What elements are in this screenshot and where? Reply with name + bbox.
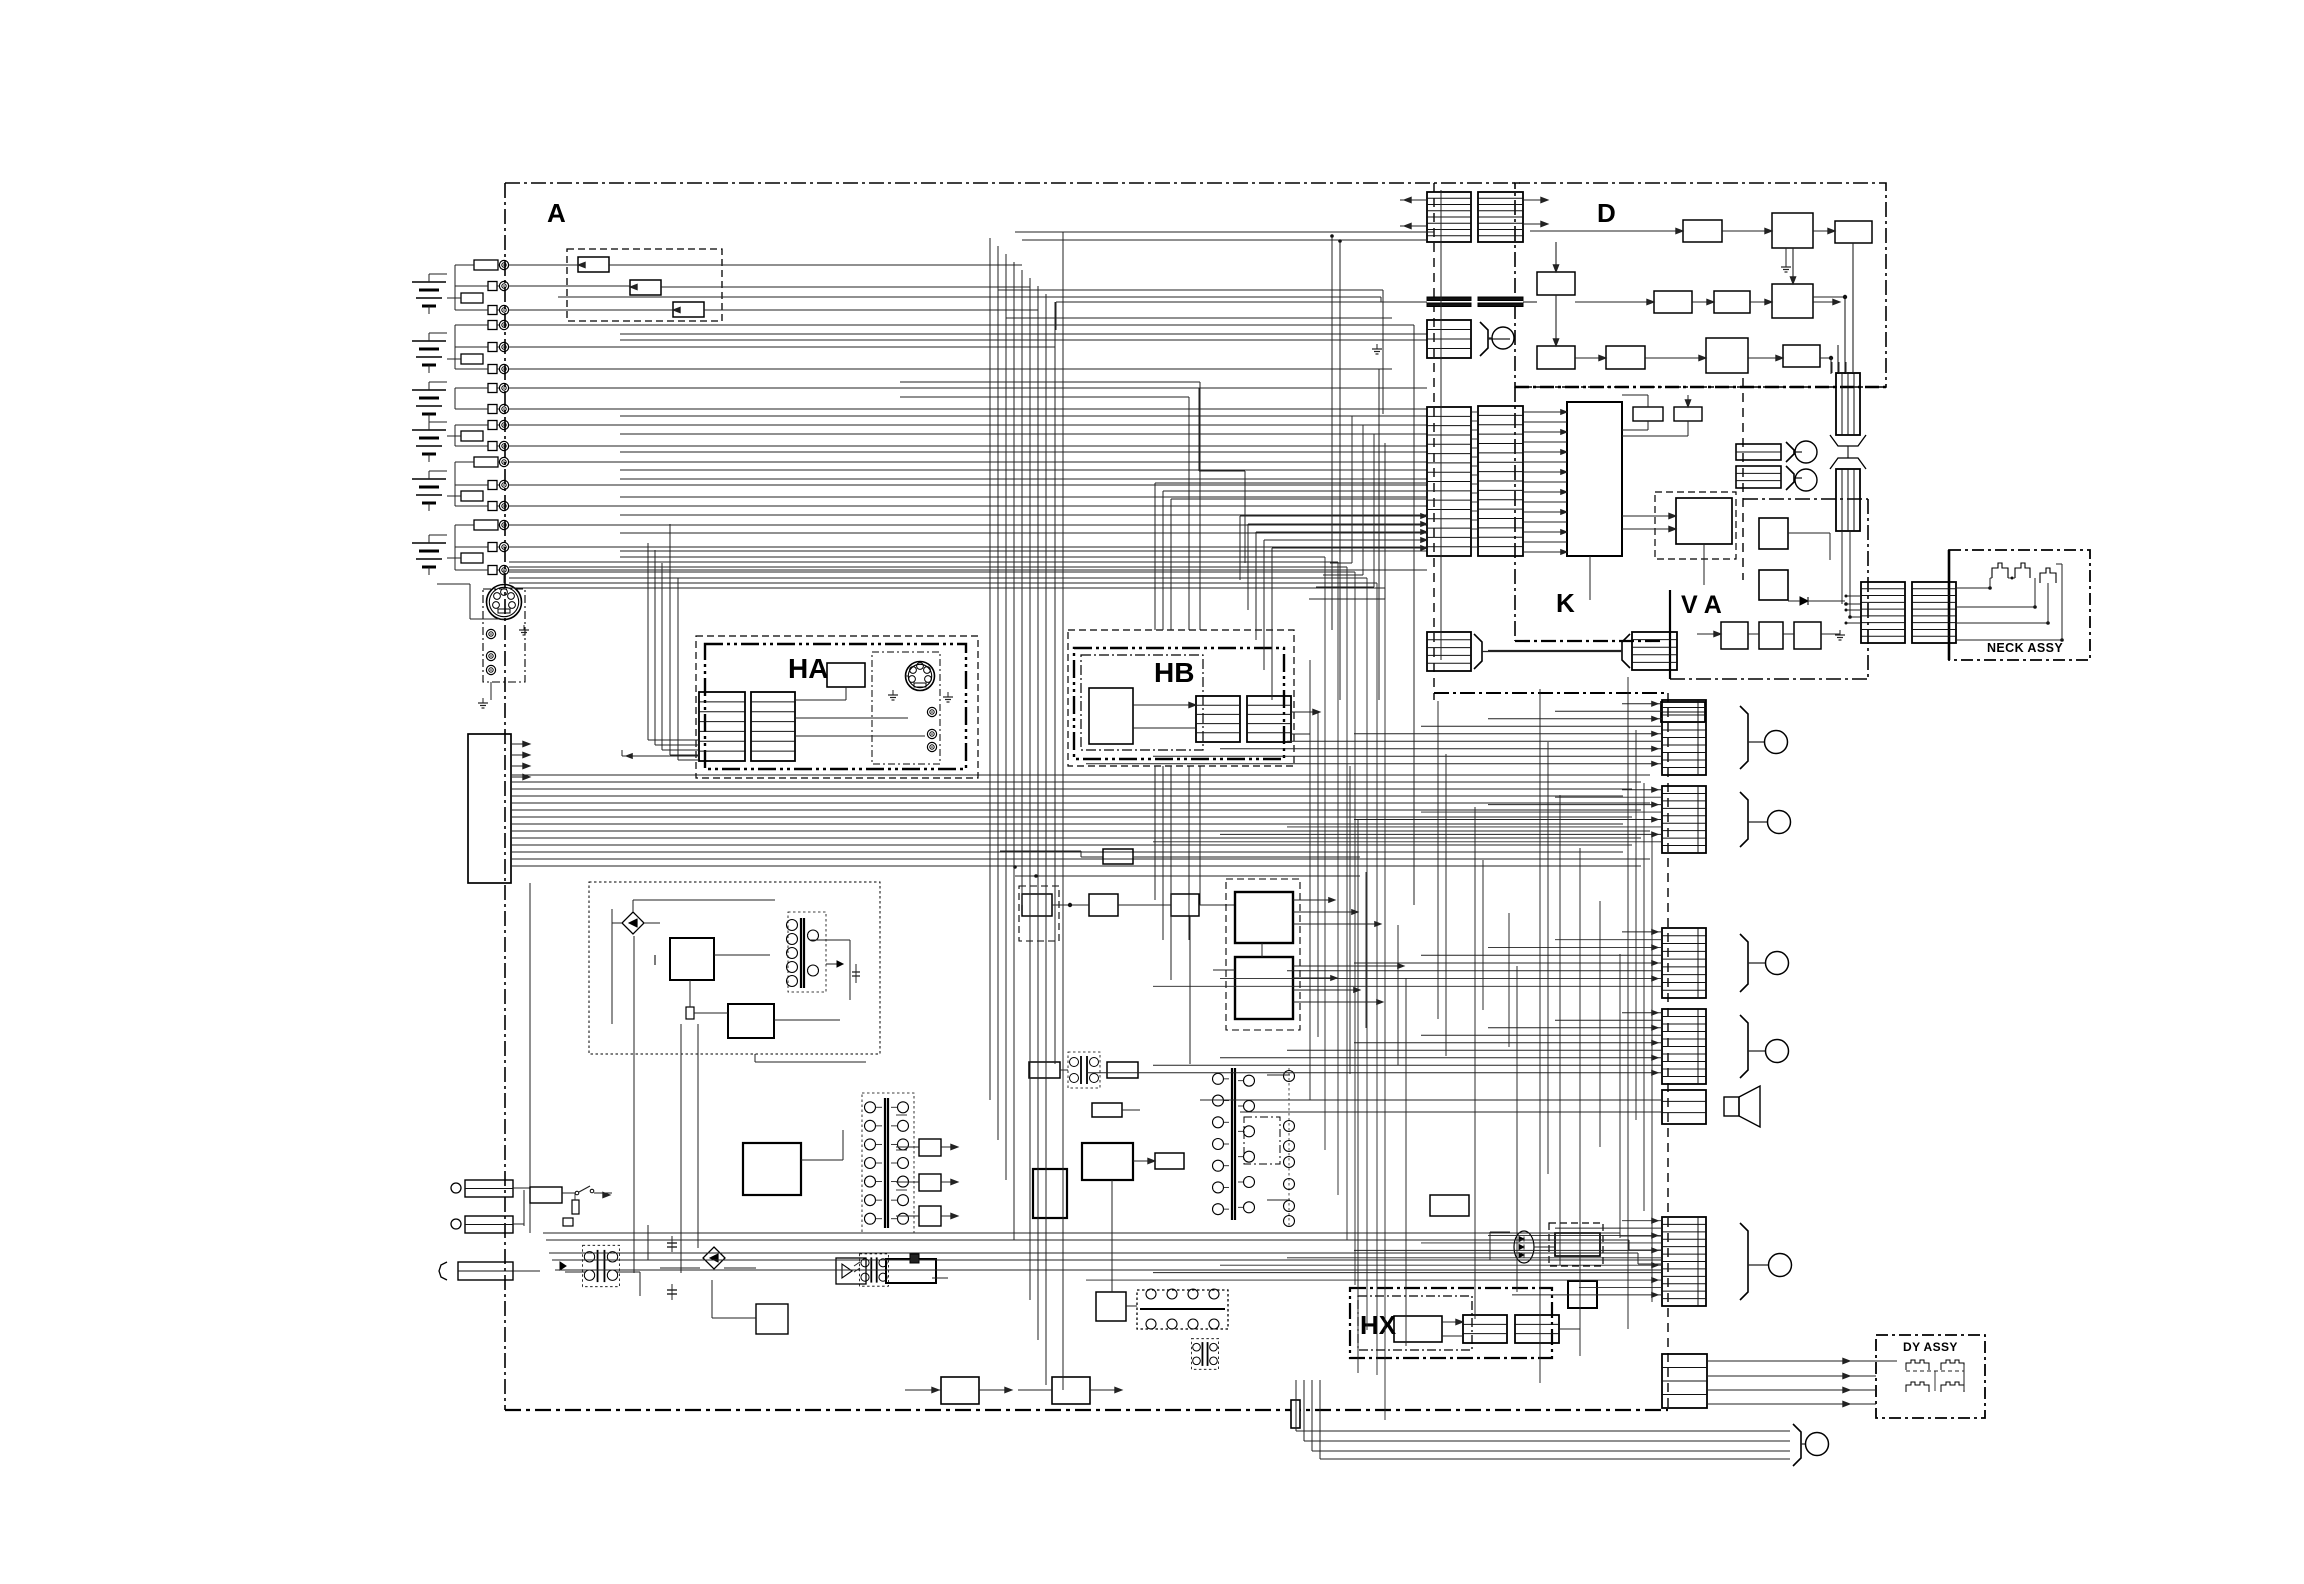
board edge terminal [499,542,508,551]
series block on bus [1000,850,1081,852]
A left edge lower vertical wire [529,883,531,1233]
power supply primary dotted box [589,882,880,1054]
AFC transformer [1080,1056,1082,1084]
connector pin [488,321,497,330]
neck coil 3 [2040,568,2056,583]
h-osc block [1092,1103,1122,1117]
VA driver block [1676,498,1732,544]
main bridge [647,1225,649,1260]
speaker symbol [1724,1097,1739,1116]
DIN jack S-video [487,585,522,620]
D block b1 [1683,220,1722,242]
terminal signal wires running right [509,324,1414,326]
AFC block R [1107,1062,1138,1078]
svg-text:HX: HX [1360,1310,1397,1340]
spot killer block 2 [1052,1377,1090,1404]
svg-text:HB: HB [1154,657,1194,688]
ferrite bar1 [1427,297,1471,301]
sync sep block [1022,894,1052,916]
pin group link wires [454,265,456,310]
HA connector 2 [751,692,795,761]
D block b6 [1714,291,1750,313]
AC line to transformer [513,1270,540,1272]
board edge terminal [499,364,508,373]
board edge terminal [499,342,508,351]
HB tuner sub dash box [1081,655,1203,750]
connector pin [488,343,497,352]
delay-line sub-board dashed box [567,249,722,321]
board edge terminal [499,480,508,489]
D block b11 [1783,345,1820,367]
connector AV1 [1736,444,1781,460]
board edge terminal [499,260,508,269]
remote sensor dashed box [1549,1223,1603,1266]
lower long bus wires [543,1232,1620,1234]
HB tuner block [1089,688,1133,744]
jungle IC block2 [1235,957,1293,1019]
connector pin [488,365,497,374]
HA assembly outer dashed box [696,636,978,778]
D block b4 [1537,272,1575,295]
connector pin [488,306,497,315]
AC power plug [439,1262,447,1280]
HA jack terminals [927,707,936,716]
DY ASSY boundary [1876,1335,1985,1418]
board edge terminal [499,457,508,466]
HA DIN jack [906,662,935,691]
connector K1 (tall) [1427,407,1471,556]
chain block 1 [1089,894,1118,916]
PSU control IC [670,938,714,980]
neck wires [1956,587,1990,589]
board K boundary [1514,387,1516,641]
v-out block bold [1033,1169,1067,1218]
D block b8 [1537,346,1575,369]
connector CN-D3 with earphone jack [1427,320,1471,358]
board edge terminal [499,501,508,510]
DY connector [1662,1354,1707,1408]
speaker connector [1662,1090,1706,1124]
secondary rectifier rects [919,1139,941,1156]
staircase bundle to HB verticals [620,556,1325,558]
board D boundary [1515,183,1886,387]
connector AV2 [1736,466,1781,488]
svg-text:K: K [1556,588,1575,618]
board A boundary (dash-dot outline) [505,182,1520,184]
D wires row2 [1575,301,1654,303]
staircase corners above K [1351,416,1353,563]
HX wires [1442,1321,1463,1323]
resistor [474,260,498,270]
block filter1 [578,257,609,272]
earphone circle [1492,327,1514,349]
K bottom routing [1589,556,1591,600]
svg-text:V A: V A [1681,591,1722,619]
connector CN-D2 [1478,192,1523,242]
RCA jack pair 2 [451,1219,461,1229]
junction resistor blocks [461,293,483,303]
HA left entry arrows [622,755,699,757]
main regulator block [743,1143,801,1195]
D block b3 [1835,221,1872,243]
fuse on boundary [1291,1400,1300,1428]
D risers to VD1 [1831,362,1833,373]
input filter block [530,1187,562,1203]
h-drive block bold [1082,1143,1133,1180]
A-side connector for VA [1427,632,1471,671]
extra bus wires into connector K1 [620,415,1427,417]
main switching transformer [862,1093,914,1233]
svg-text:HA: HA [788,653,828,684]
HB wires [1133,704,1196,706]
chain block 2 [1171,894,1199,916]
degauss jack [1801,1443,1806,1445]
connector pin [488,421,497,430]
jack terminal [486,629,495,638]
board edge terminal [499,305,508,314]
CRT/AV connector [1662,700,1706,775]
DY coils [1906,1360,1929,1370]
VA brace to A [1622,634,1630,668]
mid horizontal feeders [509,286,990,288]
chain wires [1052,904,1089,906]
AV jack circles [1786,442,1794,462]
power switch [562,1192,575,1194]
RCA jack pair 1 [451,1183,461,1193]
K IC main (microcontroller) [1567,402,1622,556]
right mesh horizontals to CRT connectors [1622,703,1662,705]
fuse on opto wire [910,1254,919,1263]
block filter3 [673,302,704,317]
HB connector 1 [1196,696,1240,742]
vertical bus bundle center-left [989,238,991,1100]
svg-text:D: D [1597,198,1616,228]
brace and jack [1740,934,1748,992]
staircase jogs center [1176,387,1199,389]
PSU switching transformer [788,912,826,992]
battery / electrolytic symbols [412,281,446,283]
staircase wires into HA connector [647,543,649,740]
CRT/AV connector [1662,928,1706,998]
wires to filter blocks [509,264,578,266]
VA amp blocks row [1721,622,1748,649]
HA inner shield dash-dot box [705,644,966,769]
K block r1 [1633,407,1663,421]
h-out block [1155,1153,1184,1169]
K wires top [1647,395,1649,407]
top feeder risers right [1331,236,1333,630]
bundle entering K lower [1240,515,1427,517]
HB inner shield dash-dot box [1074,648,1284,759]
jack wires [513,1187,530,1189]
extra bus line [1015,875,1360,877]
flyback drive vertical [1111,1180,1113,1292]
bottom risers to degauss bundle [1295,1380,1297,1431]
board A main connector CN (tall) [468,734,511,883]
HA IF block [827,663,865,687]
right mesh verticals [1309,660,1311,1100]
board edge terminal [499,320,508,329]
resistor [474,520,498,530]
D block b9 [1606,346,1645,369]
board VA boundary [1669,590,1671,679]
line filter transformer [597,1250,599,1282]
H-size transformer block [1137,1290,1228,1329]
connector pin [488,442,497,451]
D wires col [1555,242,1557,272]
connector CN-D1 [1427,192,1471,242]
board edge terminal [499,281,508,290]
NECK ASSY boundary [1949,550,2090,660]
VA bottom connector [1661,702,1705,722]
CN-D arrows [1400,199,1427,201]
D wires row3 [1575,357,1606,359]
spot killer block 1 [941,1377,979,1404]
FBT diode stack wires [1267,1074,1290,1076]
brace and jack [1740,1015,1748,1078]
connector pin [488,384,497,393]
HA wires [845,687,847,700]
FBT left transformer [1231,1068,1233,1220]
jungle IC dashed box [1226,879,1300,1030]
connector pin [488,481,497,490]
vertical risers from top band [1413,325,1415,905]
top feeder wires [990,237,1063,239]
board edge terminal [499,383,508,392]
K wires left fan [1523,411,1567,413]
FBT diode column [1288,1068,1290,1228]
jack terminal [486,665,495,674]
pincushion transformer [1201,1342,1203,1366]
D wires row1 [1530,230,1683,232]
HX connector 1 [1463,1315,1507,1343]
svg-text:DY ASSY: DY ASSY [1903,1340,1958,1354]
connector K2 (tall) [1478,406,1523,556]
board edge terminal [499,520,508,529]
jack terminal [486,651,495,660]
neck input stubs [1846,595,1861,597]
K block r2 [1674,407,1702,421]
funnel VD1 [1830,435,1866,446]
main harness bundle [511,774,1650,776]
connector pin [488,502,497,511]
brace and jack [1740,1223,1748,1300]
CRT/AV connector [1662,786,1706,853]
DY internal wires [1876,1360,1897,1362]
block filter2 [630,280,661,295]
DY harness wires [1707,1360,1876,1362]
FBT sub dashdot box [1244,1117,1280,1164]
PSU cap [654,955,656,965]
wires VD to neck [1841,531,1843,604]
HA tuner sub box [872,652,940,764]
VA wires row [1697,633,1721,635]
HX inner dashed box [1358,1296,1472,1350]
HX outer dash-dot box [1350,1288,1552,1358]
HX block [1394,1316,1442,1342]
D block b2 [1772,213,1813,248]
neck coil 1 [1992,563,2008,578]
PSU wires [632,900,634,912]
LED oval [1514,1231,1534,1263]
fuse symbol [572,1200,579,1214]
svg-text:NECK ASSY: NECK ASSY [1987,641,2063,655]
D block b7 [1772,284,1813,318]
power LED block [1568,1281,1597,1308]
ferrite bar2 [1478,297,1523,301]
board edge terminal [499,404,508,413]
resistor [474,457,498,467]
connector NK2 [1912,582,1956,643]
D block b5 [1654,291,1692,313]
K jumper wires [1471,411,1478,413]
connector pin [488,282,497,291]
opto coupler [836,1258,866,1284]
vertical connector VD1 [1836,373,1860,435]
error amp block [886,1259,936,1283]
sub board dash box with jacks [483,589,525,682]
IC output wires [1293,899,1335,901]
vertical drive wire [1189,916,1191,1064]
flyback block [1096,1292,1126,1321]
PSU sub block [728,1004,774,1038]
neck internal link [1990,577,1992,579]
funnel VD2 [1830,458,1866,469]
HB assembly outer dashed box [1068,630,1294,766]
brace and jack [1740,792,1748,847]
VA connector [1632,632,1677,670]
CRT/AV connector [1662,1217,1706,1306]
VA block sq2 [1759,570,1788,600]
HA connector 1 [699,692,745,761]
connector NK1 [1861,582,1905,643]
degauss thermistor [563,1218,573,1226]
board edge terminal [499,565,508,574]
HX connector 2 [1515,1315,1559,1343]
neck coil 2 [2015,563,2030,578]
speaker feed wires [1200,1099,1662,1101]
PSU fuse [686,1007,694,1019]
VA diode [1800,597,1808,605]
bridge rectifier [622,912,644,934]
sync sep dashed box [1019,886,1059,941]
K to VA sub box [1655,492,1736,559]
connector pin [488,405,497,414]
board edge terminal [499,420,508,429]
error amp transformer [870,1257,872,1282]
HB connector 2 [1247,696,1291,742]
remote sensor block [1555,1233,1600,1256]
connector pin [488,566,497,575]
brace and jack [1740,706,1748,769]
board edge terminal [499,441,508,450]
CRT/AV connector [1662,1009,1706,1084]
connector pin [488,543,497,552]
AFC block L [1029,1062,1060,1078]
jungle IC block1 [1235,892,1293,943]
long top-band wires into CN-D3 [558,296,1381,298]
ac inlet block [1430,1195,1469,1216]
bottom harness to degauss jack [1296,1430,1790,1432]
relay / degauss block [756,1304,788,1334]
VA block sq1 [1759,518,1788,549]
D feedback wires [1792,248,1794,284]
smoothing caps [671,1236,673,1252]
vertical connector VD2 [1836,469,1860,531]
svg-text:A: A [547,198,566,228]
D block b10 [1706,338,1748,373]
